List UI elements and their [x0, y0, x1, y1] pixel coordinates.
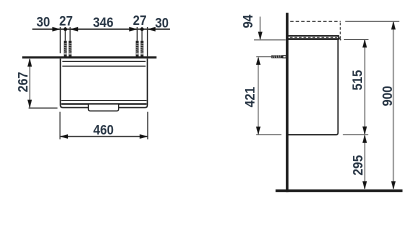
svg-text:27: 27 [59, 13, 73, 29]
svg-text:94: 94 [240, 14, 256, 28]
svg-text:515: 515 [350, 70, 366, 90]
svg-text:267: 267 [15, 72, 31, 92]
svg-text:460: 460 [93, 122, 113, 138]
svg-text:421: 421 [242, 87, 258, 107]
svg-text:346: 346 [93, 14, 113, 30]
svg-text:900: 900 [379, 86, 395, 106]
svg-text:30: 30 [155, 15, 169, 31]
svg-text:27: 27 [133, 13, 147, 29]
svg-text:30: 30 [37, 14, 51, 30]
svg-text:295: 295 [350, 155, 366, 175]
